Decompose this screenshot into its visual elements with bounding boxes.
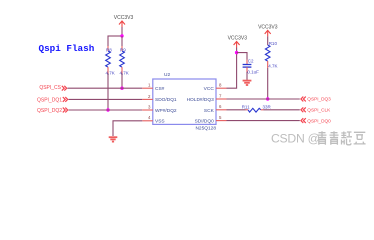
svg-text:SDI/DQ0: SDI/DQ0 [195,119,215,125]
svg-text:R10: R10 [269,41,278,46]
wire junction to C2 [237,53,247,60]
pin 3 WP#/DQ2 [142,104,153,110]
junction R10 / pin7 wire [266,97,269,100]
junction at VCC / R9 top [120,34,123,37]
pin 4 VSS [142,115,153,121]
svg-text:CS#: CS# [155,86,165,92]
wire VCC stem to junction [236,48,238,53]
ground (below VSS) [109,137,118,141]
wire QSPI_DQ2 to pin3 [69,109,143,111]
svg-text:U2: U2 [164,72,170,78]
wire R11 to QSPI_CLK [264,109,300,111]
svg-text:QSPI_DQ2: QSPI_DQ2 [37,108,62,114]
svg-text:N25Q128: N25Q128 [195,126,216,132]
svg-text:8: 8 [219,83,222,88]
junction R8 / pin3 wire [106,108,109,111]
pin 8 VCC [216,83,227,89]
pin 5 SDI/DQ0 [216,115,227,121]
port QSPI_DQ0 [301,118,331,123]
svg-text:0.1uF: 0.1uF [247,70,259,75]
svg-text:CSDN @: CSDN @ [271,132,320,146]
svg-text:HOLD#/DQ3: HOLD#/DQ3 [187,97,215,103]
junction R9 / pin1 wire [120,87,123,90]
port QSPI_CLK [301,107,331,112]
svg-text:SCK: SCK [204,108,215,114]
svg-text:6: 6 [219,104,222,109]
watermark CSDN [271,131,366,145]
svg-text:1: 1 [148,83,151,88]
svg-text:VSS: VSS [155,119,165,125]
ground (below C2) [243,81,252,85]
power VCC3V3 (above R10) [258,25,278,37]
svg-text:VCC3V3: VCC3V3 [258,25,278,31]
svg-text:4.7K: 4.7K [268,64,277,69]
wire down to R9 top [121,36,123,46]
svg-text:VCC3V3: VCC3V3 [228,36,248,42]
wire top horizontal R8-R9 [108,35,123,37]
port QSPI_CS [39,85,66,91]
svg-text:33R: 33R [263,105,272,110]
resistor R11 33R [242,105,272,113]
wire pin8 to VCC branch [227,53,237,89]
svg-text:Qspi Flash: Qspi Flash [39,43,95,54]
wire VCC stem down to junction [121,27,123,36]
pin 1 CS# [142,83,153,89]
wire R10 bottom to pin7 row [267,68,269,99]
capacitor C2 0.1uF [243,58,260,74]
svg-text:QSPI_DQ3: QSPI_DQ3 [307,97,331,102]
svg-text:QSPI_DQ0: QSPI_DQ0 [307,118,331,123]
port QSPI_DQ2 [37,108,68,114]
wire down to R8 top [107,36,109,47]
svg-text:2: 2 [148,94,151,99]
svg-text:QSPI_DQ1: QSPI_DQ1 [37,97,62,103]
wire QSPI_DQ1 to pin2 [69,98,143,100]
svg-text:5: 5 [219,115,222,120]
power VCC3V3 (above C2) [228,36,248,48]
svg-text:4.7K: 4.7K [106,71,115,76]
op chip U2 N25Q128 [153,72,217,132]
pin 6 SCK [216,104,227,110]
svg-text:4.7K: 4.7K [120,71,129,76]
junction VCC / C2 branch [235,51,238,54]
wire pin7 to QSPI_DQ3 [227,98,300,100]
wire pin4 VSS to ground [113,121,142,136]
svg-text:3: 3 [148,104,151,109]
port QSPI_DQ1 [37,97,68,103]
resistor R8 [106,46,115,76]
svg-text:QSPI_CLK: QSPI_CLK [307,108,331,113]
port QSPI_DQ3 [301,97,331,102]
svg-text:SDO/DQ1: SDO/DQ1 [155,97,177,103]
svg-text:VCC: VCC [204,86,215,92]
resistor R10 [265,41,277,69]
wire R8 bottom to WP row [107,73,109,110]
wire pin6 to R11 [227,109,246,111]
wire VCC stem to R10 [267,36,269,45]
wire QSPI_CS to pin1 [68,87,143,89]
svg-text:R11: R11 [242,105,250,110]
svg-text:VCC3V3: VCC3V3 [114,15,134,21]
svg-text:7: 7 [219,93,222,98]
pin 2 SDO/DQ1 [142,94,153,100]
power VCC3V3 (left, above R8/R9) [114,15,134,27]
svg-text:C2: C2 [248,58,254,63]
svg-text:QSPI_CS: QSPI_CS [39,85,61,91]
wire R9 bottom to CS row [121,73,123,88]
pin 7 HOLD#/DQ3 [216,93,227,99]
resistor R9 [120,46,129,76]
wire C2 bottom to ground [246,72,248,80]
wire pin5 to QSPI_DQ0 [227,120,300,122]
svg-text:WP#/DQ2: WP#/DQ2 [155,108,177,114]
svg-text:4: 4 [148,115,151,120]
